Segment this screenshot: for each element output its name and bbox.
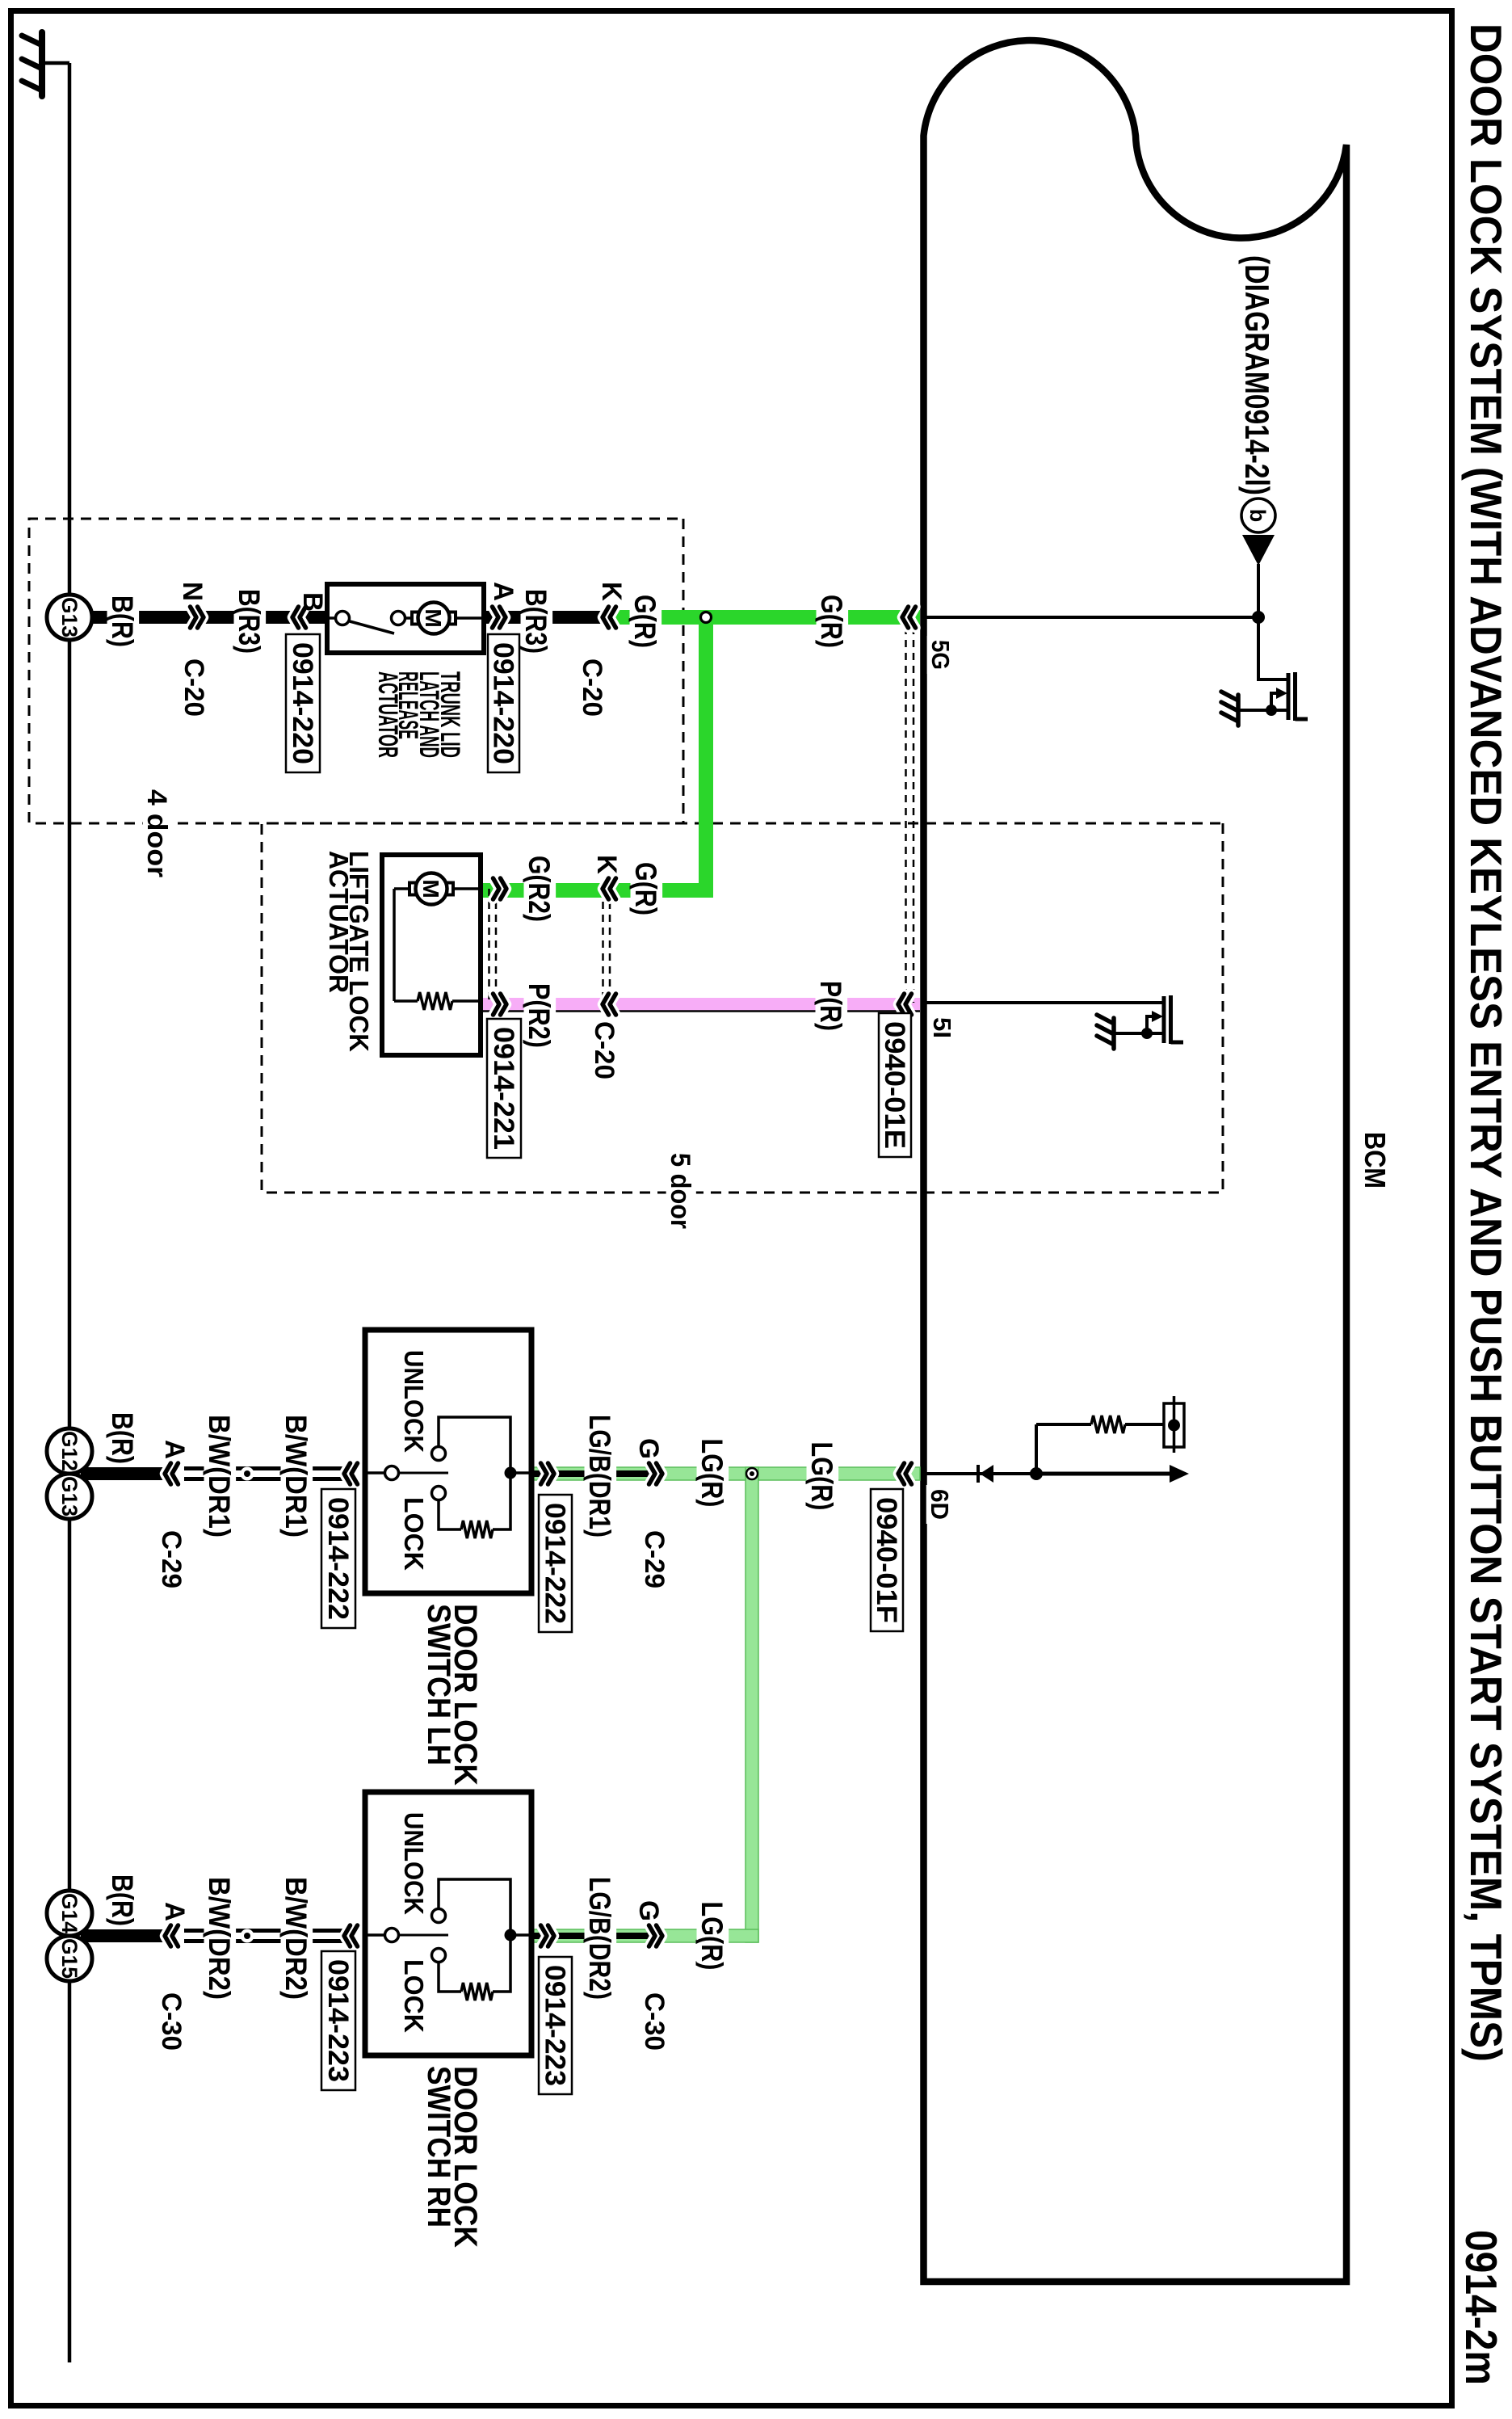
- svg-text:0914-221: 0914-221: [488, 1027, 519, 1150]
- door lock switch box: [365, 1792, 531, 2055]
- wire LG/B(DR1) black core: [531, 1470, 650, 1477]
- svg-text:M: M: [418, 879, 443, 898]
- resistor lock sense: [461, 1983, 493, 2000]
- wire label LG(R): [807, 1438, 839, 1515]
- connector chevron actuator pin B: [292, 607, 306, 628]
- switch contact LOCK: [432, 1487, 446, 1500]
- wire lock path: [493, 1935, 510, 1992]
- ground G15: [47, 1936, 92, 1981]
- svg-text:ACTUATOR: ACTUATOR: [372, 671, 403, 758]
- svg-text:LG/B(DR1): LG/B(DR1): [583, 1415, 616, 1538]
- connector C-20 label: [180, 654, 210, 721]
- svg-text:0914-223: 0914-223: [540, 1965, 571, 2086]
- wire P(R)/P(R2) liftgate to BCM 5I: [481, 998, 920, 1011]
- svg-text:G13: G13: [57, 597, 82, 637]
- svg-text:B(R3): B(R3): [519, 589, 552, 654]
- connector chevron switch output: [541, 1463, 555, 1484]
- wire liftgate internal: [394, 999, 418, 1003]
- wire label LG(R): [697, 1435, 729, 1512]
- connector chevron C-20 liftgate pink: [603, 994, 616, 1015]
- wire lock path: [439, 1962, 461, 1992]
- wire liftgate internal resistor lead: [452, 999, 481, 1003]
- svg-text:DOOR LOCK SYSTEM (WITH ADVANCE: DOOR LOCK SYSTEM (WITH ADVANCED KEYLESS …: [1461, 23, 1511, 2062]
- svg-text:SWITCH LH: SWITCH LH: [421, 1604, 456, 1765]
- wire ground lead: [42, 61, 69, 65]
- svg-text:BCM: BCM: [1359, 1132, 1392, 1188]
- terminal/voltage source symbol: [1164, 1396, 1184, 1453]
- svg-text:0914-223: 0914-223: [322, 1959, 354, 2082]
- pin 5G label: [927, 636, 955, 674]
- door lock switch box: [365, 1330, 531, 1593]
- MOSFET driver Q-5I: [1114, 995, 1183, 1044]
- svg-text:UNLOCK: UNLOCK: [399, 1812, 429, 1915]
- wire switch output lead: [510, 1933, 531, 1937]
- svg-text:G(R): G(R): [628, 595, 661, 648]
- wire LG(R) LH switch to BCM 6D: [531, 1467, 920, 1480]
- motor M liftgate actuator: [409, 873, 453, 905]
- wire G(R) branch to liftgate: [699, 617, 713, 890]
- splice on B/W(DR1): [241, 1467, 254, 1481]
- svg-text:LG(R): LG(R): [805, 1442, 838, 1511]
- connector C-20 dashed link: [609, 889, 611, 1004]
- connector 0914-220 label: [488, 634, 520, 772]
- svg-text:B/W(DR2): B/W(DR2): [279, 1877, 313, 2000]
- connector chevron BCM 5G: [902, 607, 916, 628]
- BCM box: [924, 40, 1347, 2282]
- arrowhead logic input: [1170, 1465, 1189, 1483]
- ground (BCM internal): [1097, 1015, 1114, 1049]
- connector 0914-223 label: [539, 1957, 572, 2094]
- svg-text:A: A: [159, 1440, 190, 1459]
- wire liftgate internal: [394, 887, 410, 890]
- svg-text:0914-2m: 0914-2m: [1456, 2230, 1506, 2385]
- svg-text:B: B: [297, 592, 328, 612]
- svg-text:B(R): B(R): [106, 1412, 139, 1464]
- resistor pull-up 6D: [1091, 1416, 1125, 1433]
- resistor lock sense: [461, 1521, 493, 1538]
- connector 0914-222 label: [321, 1489, 355, 1628]
- svg-text:G: G: [633, 1900, 664, 1921]
- wire actuator internal A side: [455, 616, 484, 620]
- switch arm: [398, 1934, 448, 1937]
- svg-text:LG(R): LG(R): [695, 1902, 729, 1971]
- svg-text:G15: G15: [57, 1938, 82, 1979]
- connector chevron inline pin A: [165, 1925, 178, 1946]
- 5-door option dashed box: [262, 823, 1223, 1193]
- ground G14: [47, 1891, 92, 1936]
- wire liftgate internal motor lead: [452, 887, 481, 890]
- wire unlock path: [439, 1417, 510, 1473]
- pin A label: [161, 1436, 191, 1463]
- wire label G(R2): [524, 852, 556, 926]
- wire G(R)/G(R2) liftgate drop: [481, 883, 713, 898]
- wire BCM internal 5G: [924, 616, 1258, 619]
- wire switch common lead: [365, 1471, 384, 1475]
- liftgate lock actuator box: [382, 855, 481, 1055]
- wire lock path: [439, 1500, 461, 1529]
- wire label LG/B(DR1): [585, 1411, 617, 1542]
- 4 door label: [143, 785, 173, 881]
- connector chevron switch output: [541, 1925, 555, 1946]
- switch contact UNLOCK: [432, 1447, 446, 1461]
- svg-text:0914-222: 0914-222: [322, 1497, 354, 1620]
- svg-text:0940-01E: 0940-01E: [879, 1021, 910, 1149]
- svg-text:G(R2): G(R2): [523, 856, 556, 922]
- svg-text:C-29: C-29: [156, 1530, 187, 1588]
- wire 6D pullup branch: [1035, 1424, 1038, 1474]
- pin G label: [635, 1896, 665, 1925]
- wire label G(R): [631, 858, 663, 919]
- pin N label: [178, 578, 208, 605]
- wire label G(R): [630, 591, 662, 652]
- connector chevron C-20 pin N: [191, 607, 204, 628]
- connector C-29 label: [640, 1526, 670, 1592]
- wire actuator internal: [405, 616, 413, 620]
- MOSFET driver Q-5G: [1238, 672, 1308, 721]
- svg-text:0914-222: 0914-222: [540, 1503, 571, 1624]
- wire B/W(DR2): [184, 1929, 342, 1933]
- svg-text:P(R): P(R): [814, 981, 847, 1031]
- wire label B(R): [108, 1409, 139, 1467]
- wire label B/W(DR1): [204, 1411, 237, 1542]
- connector C-20 label liftgate: [590, 1017, 620, 1083]
- connector 0914-222 label: [539, 1495, 572, 1632]
- svg-text:A: A: [159, 1902, 190, 1921]
- svg-text:UNLOCK: UNLOCK: [399, 1350, 429, 1453]
- connector chevron switch B/W side: [344, 1463, 358, 1484]
- pin A label: [489, 578, 519, 605]
- switch common contact: [385, 1466, 399, 1480]
- node switch output: [505, 1929, 517, 1942]
- connector label: [157, 1526, 187, 1592]
- svg-text:P(R2): P(R2): [523, 983, 556, 1048]
- switch contact UNLOCK: [432, 1909, 446, 1923]
- connector 0914-221 label: [487, 1019, 521, 1158]
- wire label B/W(DR2): [281, 1873, 313, 2004]
- wire LG/B(DR2) black core: [531, 1933, 650, 1939]
- wire label B/W(DR1): [281, 1411, 313, 1542]
- wire label LG(R) RH: [697, 1898, 729, 1975]
- wire 6D to logic arrow: [1036, 1472, 1173, 1476]
- connector 0940-01 dashed link: [913, 627, 915, 1003]
- connector chevron liftgate P(R2): [493, 994, 507, 1015]
- svg-text:M: M: [421, 608, 446, 627]
- svg-text:5I: 5I: [928, 1017, 956, 1038]
- connector 0914-220 label: [286, 634, 320, 772]
- connector chevron actuator pin A: [493, 607, 506, 628]
- connector chevron inline pin G: [649, 1463, 663, 1484]
- svg-text:K: K: [596, 582, 627, 601]
- svg-text:0914-220: 0914-220: [488, 642, 519, 764]
- svg-text:5 door: 5 door: [665, 1153, 695, 1229]
- svg-text:b: b: [1245, 509, 1270, 523]
- node junction LG(R): [746, 1468, 758, 1479]
- ground G13: [47, 595, 92, 640]
- svg-text:G12: G12: [57, 1431, 82, 1471]
- svg-text:ACTUATOR: ACTUATOR: [324, 851, 354, 993]
- wire label B(R): [107, 591, 140, 651]
- svg-text:G: G: [633, 1438, 664, 1459]
- switch contact LOCK: [432, 1949, 446, 1963]
- svg-text:(DIAGRAM0914-2l): (DIAGRAM0914-2l): [1238, 255, 1276, 495]
- svg-text:SWITCH RH: SWITCH RH: [421, 2066, 456, 2228]
- 4-door option dashed box: [29, 519, 683, 823]
- connector chevron inline pin G: [649, 1925, 663, 1946]
- connector 0914-223 label: [321, 1951, 355, 2090]
- svg-text:4 door: 4 door: [141, 789, 172, 877]
- svg-text:LG/B(DR2): LG/B(DR2): [583, 1877, 616, 2000]
- switch common contact: [385, 1929, 399, 1942]
- svg-text:0940-01F: 0940-01F: [871, 1497, 902, 1623]
- wire to diagram reference: [1257, 564, 1260, 617]
- svg-text:B/W(DR2): B/W(DR2): [203, 1877, 236, 2000]
- connector chevron inline pin A: [165, 1463, 178, 1484]
- connector chevron BCM 5I: [898, 994, 912, 1015]
- connector chevron switch B/W side: [344, 1925, 358, 1946]
- wire BCM internal 6D: [924, 1472, 978, 1475]
- wire LG(R) bus LH-RH: [745, 1467, 758, 1942]
- ground (BCM internal): [1221, 692, 1238, 726]
- svg-text:A: A: [488, 582, 519, 601]
- wire label B(R): [108, 1871, 139, 1929]
- wire G(R) trunk to BCM 5G: [603, 610, 920, 625]
- svg-text:LOCK: LOCK: [399, 1497, 429, 1571]
- svg-text:C-20: C-20: [178, 658, 209, 717]
- wire label B(R3): [521, 585, 553, 658]
- node switch output: [505, 1467, 517, 1479]
- connector 0940-01F label: [871, 1489, 903, 1631]
- svg-text:C-20: C-20: [577, 658, 607, 717]
- switch contact: [336, 612, 350, 625]
- connector chevron C-20 pin K: [603, 607, 616, 628]
- wire switch output lead: [510, 1471, 531, 1475]
- svg-text:K: K: [591, 855, 622, 874]
- wire label LG(R): [697, 1897, 729, 1974]
- svg-text:G13: G13: [57, 1476, 82, 1517]
- trunk lid latch and release actuator box: [327, 584, 484, 653]
- wire lock path: [493, 1473, 510, 1529]
- diode BCM internal: [978, 1465, 993, 1483]
- svg-text:C-30: C-30: [156, 1992, 187, 2051]
- svg-text:5G: 5G: [926, 640, 955, 670]
- node junction 6D internal: [1030, 1467, 1043, 1480]
- wire label P(R2): [524, 979, 556, 1052]
- svg-text:0914-220: 0914-220: [287, 642, 318, 764]
- motor M trunk actuator: [412, 603, 456, 634]
- svg-text:N: N: [177, 582, 208, 601]
- switch arm: [398, 1472, 448, 1475]
- wire B(R): [81, 1929, 170, 1942]
- splice on B/W(DR2): [241, 1929, 254, 1943]
- pin K label liftgate: [593, 851, 623, 878]
- connector 0940-01E label: [879, 1013, 911, 1157]
- wire pink edge line: [481, 1010, 920, 1012]
- wire label P(R): [816, 977, 848, 1035]
- svg-text:B(R3): B(R3): [233, 589, 266, 654]
- svg-text:C-30: C-30: [639, 1992, 670, 2051]
- wire B/W(DR1): [184, 1466, 342, 1470]
- ground G13: [47, 1474, 92, 1519]
- connector C-30 label: [640, 1988, 670, 2055]
- pin G label: [635, 1434, 665, 1463]
- svg-text:LOCK: LOCK: [399, 1959, 429, 2033]
- node junction 5G internal: [1252, 611, 1265, 624]
- 5 door label: [666, 1149, 696, 1233]
- resistor liftgate actuator: [418, 992, 452, 1010]
- svg-text:G(R): G(R): [629, 862, 662, 915]
- svg-text:6D: 6D: [926, 1489, 954, 1520]
- svg-text:B/W(DR1): B/W(DR1): [279, 1415, 313, 1538]
- svg-text:G14: G14: [57, 1893, 82, 1933]
- circled b reference: [1241, 499, 1275, 532]
- connector C-20 label: [578, 654, 608, 721]
- wire unlock path: [439, 1879, 510, 1935]
- wire actuator internal B side: [327, 616, 336, 620]
- switch blade: [350, 621, 394, 633]
- wire label G(R): [817, 591, 849, 652]
- ground G12: [47, 1428, 92, 1474]
- wire BCM internal 5I: [924, 1001, 1163, 1004]
- wire switch common lead: [365, 1933, 384, 1937]
- arrow from diagram 0914-2l: [1242, 535, 1275, 566]
- wire label B/W(DR2): [204, 1873, 237, 2004]
- wire ground bus: [68, 63, 72, 2362]
- svg-text:C-20: C-20: [589, 1021, 619, 1079]
- switch contact: [392, 612, 405, 625]
- wire label LG/B(DR2): [585, 1873, 617, 2004]
- svg-text:C-29: C-29: [639, 1530, 670, 1588]
- wire label B(R3): [234, 585, 267, 658]
- wire B(R): [81, 1467, 170, 1480]
- connector chevron C-20 pin K liftgate: [603, 878, 616, 899]
- pin A label: [161, 1898, 191, 1925]
- connector chevron BCM 6D: [898, 1463, 912, 1484]
- connector 0914-221 dashed link: [495, 889, 498, 1004]
- svg-text:B(R): B(R): [106, 595, 139, 647]
- wire MOSFET drain 5G: [1258, 617, 1288, 679]
- pin K label: [598, 578, 628, 605]
- svg-text:LG(R): LG(R): [695, 1439, 729, 1508]
- svg-text:G(R): G(R): [815, 595, 848, 648]
- pin 6D label: [926, 1485, 955, 1524]
- pin 5I label: [929, 1013, 957, 1042]
- node junction G(R): [701, 612, 712, 623]
- connector chevron liftgate G(R2): [493, 878, 507, 899]
- svg-text:B(R): B(R): [106, 1874, 139, 1926]
- ground (chassis): [22, 32, 42, 96]
- connector label: [157, 1988, 187, 2055]
- wire liftgate internal rail: [393, 889, 396, 1001]
- wire B(R)/B(R3) trunk: [92, 611, 603, 624]
- svg-text:B/W(DR1): B/W(DR1): [203, 1415, 236, 1538]
